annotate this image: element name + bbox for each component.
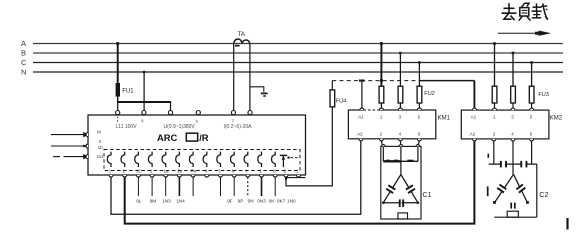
control wire KM2 coil return — [125, 141, 475, 224]
discharge resistor C1 — [398, 213, 408, 219]
svg-text:/R: /R — [199, 132, 209, 143]
svg-text:9P: 9P — [238, 199, 244, 204]
svg-text:I(0.2~5)-20A: I(0.2~5)-20A — [224, 124, 253, 130]
KM2 top terminal — [493, 108, 497, 110]
KM2 top terminal — [511, 108, 515, 110]
ground — [261, 93, 268, 96]
capacitor C1 right-phase — [405, 184, 415, 194]
wire phase C to FU2c — [418, 61, 420, 86]
wire phase C to FU3c — [530, 61, 532, 86]
fuse FU2c — [417, 86, 422, 108]
capacitor C1 left-phase — [386, 184, 396, 194]
C1 internal drop a — [382, 146, 384, 161]
svg-text:1C: 1C — [136, 169, 142, 174]
solid control supply wire — [419, 80, 474, 82]
KM1 coil terminal cap — [359, 80, 365, 109]
controller bottom terminal 8 — [205, 175, 209, 177]
svg-text:B: B — [21, 49, 26, 58]
output transistor Q7 — [189, 152, 193, 167]
C1 top terminal — [382, 145, 386, 147]
controller bottom terminal 10 — [232, 175, 236, 177]
svg-text:C2: C2 — [539, 190, 548, 199]
wire neutral tap to controller — [143, 71, 145, 111]
superscript mark s1 — [141, 118, 144, 123]
discharge resistor C2 — [507, 211, 518, 217]
wire phase A to FU2a — [380, 42, 383, 86]
svg-text:Fa: Fa — [191, 169, 197, 174]
svg-text:0N: 0N — [248, 199, 254, 204]
superscript mark 7 — [231, 119, 234, 124]
wire KM1-2 to C1 — [381, 141, 382, 147]
bus phase C — [21, 58, 563, 67]
KM1 top terminal — [417, 108, 421, 110]
KM1 bottom terminal — [359, 139, 363, 141]
svg-text:0K7: 0K7 — [277, 199, 286, 204]
wire KM1-4 to C1 — [399, 141, 402, 147]
controller bottom terminal 2 — [123, 175, 127, 177]
KM1 pin labels — [357, 114, 420, 136]
svg-text:1a: 1a — [164, 169, 169, 174]
CT secondary lead k1 — [233, 44, 235, 111]
KM2 top terminal — [530, 108, 534, 110]
svg-text:X: X — [205, 169, 208, 174]
KM1 top terminal — [379, 108, 383, 110]
dashed control supply wire — [332, 80, 419, 82]
output transistor Q1 — [107, 152, 111, 167]
svg-text:C1: C1 — [422, 190, 431, 199]
KM1 bottom terminal — [417, 139, 421, 141]
wire jumper to terminal 1 — [117, 102, 119, 111]
label C2 — [539, 190, 548, 199]
KM1 top terminal — [398, 108, 402, 110]
fuse FU3b — [511, 86, 516, 108]
controller bottom terminal 11 — [246, 175, 250, 177]
svg-text:FU2: FU2 — [424, 91, 435, 97]
wire CT to ground — [250, 87, 264, 92]
svg-text:TA: TA — [238, 31, 246, 38]
output transistor Q12 — [258, 152, 262, 167]
label KM1 — [438, 116, 451, 122]
svg-text:L11 100V: L11 100V — [116, 124, 138, 130]
C1 internal drop c — [417, 146, 419, 161]
controller bottom terminal 15 — [297, 175, 301, 177]
superscript mark s2 — [196, 118, 199, 123]
fuse FU3c — [529, 86, 534, 108]
alarm output symbol — [280, 155, 300, 167]
svg-text:A1: A1 — [471, 115, 477, 120]
label FU4 — [336, 99, 347, 105]
C1 top terminal — [399, 145, 403, 147]
svg-text:A: A — [21, 39, 26, 48]
controller left terminal 1 — [86, 133, 88, 137]
fuse FU3a — [492, 86, 497, 108]
label FU2 — [424, 91, 435, 97]
bottom pin numbers — [109, 169, 299, 174]
svg-text:0K: 0K — [269, 199, 276, 204]
label TA — [238, 31, 246, 38]
KM1 bottom terminal — [379, 139, 383, 141]
controller top terminal 6 — [248, 111, 252, 115]
controller bottom terminal 3 — [136, 175, 140, 177]
arrow to load — [498, 31, 551, 36]
capacitor C2 left-phase — [497, 184, 507, 194]
output transistor Q6 — [176, 152, 180, 167]
output transistor Q11 — [244, 152, 248, 167]
wire phase B to FU3b — [512, 52, 515, 86]
contactor KM1 box — [348, 110, 435, 139]
output transistor Q4 — [148, 152, 152, 167]
controller bottom terminal 9 — [219, 175, 223, 177]
controller top terminal 3 — [168, 111, 172, 115]
wire KM2-6 to C2 — [531, 141, 533, 164]
controller bottom terminal 5 — [164, 175, 168, 177]
label FU1 — [122, 89, 134, 95]
C2 bottom wire — [494, 216, 537, 218]
svg-text:A2: A2 — [357, 132, 363, 137]
wire KM2-2 to C2 — [493, 141, 495, 164]
left terminal tiny labels — [97, 130, 104, 159]
C1 top terminal — [416, 145, 420, 147]
capacitor C2 bar-left — [500, 161, 507, 168]
svg-text:KM2: KM2 — [550, 116, 563, 122]
svg-text:1N0: 1N0 — [287, 199, 296, 204]
output transistor Q2 — [121, 152, 125, 167]
svg-text:FU4: FU4 — [336, 99, 347, 105]
controller top terminal 1 — [116, 111, 120, 115]
wire phase A tap to FU1 — [116, 42, 119, 83]
controller bottom terminal 14 — [284, 175, 288, 177]
KM2 bottom terminal — [530, 139, 534, 141]
svg-text:ARC: ARC — [157, 132, 178, 143]
svg-text:9F: 9F — [227, 199, 233, 204]
control wire KM1 coil return — [111, 141, 361, 215]
svg-text:9L: 9L — [136, 199, 142, 204]
output transistor Q13 — [272, 152, 276, 167]
stray mark — [566, 218, 568, 230]
KM2 bottom terminal — [511, 139, 515, 141]
label 去负载 (to load) — [502, 3, 549, 20]
C1 internal drop b — [400, 146, 402, 174]
junction dot on phase A drop — [380, 79, 383, 82]
svg-text:0N3: 0N3 — [257, 199, 266, 204]
C2 bus bar — [488, 154, 537, 165]
C2 vee right side — [514, 174, 528, 203]
svg-text:2a: 2a — [177, 169, 182, 174]
controller bottom terminal 6 — [177, 175, 181, 177]
bus phase B — [21, 49, 563, 58]
svg-text:C: C — [21, 58, 27, 67]
svg-text:N: N — [21, 68, 26, 77]
output stub wires — [138, 177, 275, 196]
controller left terminal 3 — [86, 155, 88, 159]
controller bottom terminal 13 — [273, 175, 277, 177]
label KM2 — [550, 116, 563, 122]
C2 right wire — [536, 164, 538, 217]
C2 vee left side — [494, 174, 513, 203]
output transistor Q10 — [231, 152, 235, 167]
wire phase A to FU3a — [493, 42, 496, 86]
controller bottom terminal 12 — [260, 175, 264, 177]
svg-text:1N3: 1N3 — [162, 199, 171, 204]
wire KM1-6 to C1 — [418, 141, 420, 147]
wire KM2-4 to C2 — [512, 141, 514, 174]
KM1 bottom terminal — [398, 139, 402, 141]
svg-text:7: 7 — [231, 119, 234, 124]
label L1 100V — [116, 117, 138, 131]
bus phase A — [21, 39, 563, 48]
svg-text:A2: A2 — [470, 132, 476, 137]
jumper bar over controller inputs — [117, 101, 171, 103]
label section II — [511, 203, 515, 209]
svg-text:A1: A1 — [358, 114, 364, 119]
output transistor Q8 — [203, 152, 207, 167]
svg-text:9M: 9M — [150, 199, 157, 204]
C1 delta left side — [383, 175, 401, 203]
label section I — [487, 186, 489, 196]
input arrow 3 — [53, 154, 89, 159]
output transistor Q5 — [162, 152, 166, 167]
controller inner label ARC /R — [157, 132, 209, 143]
controller bottom terminal 7 — [191, 175, 195, 177]
label U 380V — [164, 124, 196, 130]
svg-text:KM1: KM1 — [438, 116, 451, 122]
KM2 pin labels — [470, 115, 533, 137]
C1 delta base — [383, 202, 418, 204]
capacitor C1 base-phase — [399, 199, 404, 207]
C1 corner joints — [382, 202, 419, 204]
label C1 — [422, 190, 431, 199]
dashed output enclosure — [104, 150, 300, 171]
C1 delta right side — [401, 175, 418, 203]
capacitor C2 bar-right — [520, 161, 527, 168]
CT secondary lead k2 — [249, 44, 251, 111]
output terminal labels — [136, 199, 296, 204]
doubled bottom edge stub — [286, 176, 306, 179]
wire supply to KM2 A1 — [473, 81, 475, 109]
svg-text:M: M — [97, 130, 101, 135]
controller top terminal 5 — [231, 111, 235, 115]
controller box ARC — [88, 115, 306, 175]
current transformer TA — [234, 39, 250, 47]
contactor KM2 box — [461, 110, 549, 139]
svg-text:FU1: FU1 — [122, 89, 134, 95]
KM2 bottom terminal — [473, 139, 477, 141]
KM1 top terminal — [360, 108, 364, 110]
controller left terminal 2 — [86, 144, 88, 148]
output transistor Q9 — [217, 152, 221, 167]
controller bottom terminal 4 — [150, 175, 154, 177]
capacitor bank C1 box — [381, 146, 421, 219]
fuse FU2b — [398, 86, 403, 108]
controller top terminal 4 — [196, 111, 200, 115]
bus neutral N — [21, 68, 563, 77]
svg-text:1b: 1b — [98, 145, 104, 150]
svg-text:111: 111 — [97, 154, 104, 159]
svg-text:U(0.9~1)380V: U(0.9~1)380V — [164, 124, 196, 130]
fuse FU4 — [330, 81, 335, 107]
capacitor C2 right-phase — [516, 184, 526, 194]
C1 bus bar — [383, 160, 418, 162]
svg-text:1N4: 1N4 — [176, 199, 185, 204]
input arrow 1 — [51, 132, 89, 137]
fuse FU2a — [379, 86, 384, 108]
fuse FU1 — [116, 83, 120, 102]
controller top terminal 2 — [142, 111, 146, 115]
svg-text:FU3: FU3 — [538, 92, 549, 98]
controller supply terminal wire — [285, 107, 332, 186]
wire jumper to terminal 3 — [170, 102, 172, 111]
input arrow 2 — [51, 145, 89, 148]
KM2 top terminal — [473, 108, 477, 110]
C2 corner joints — [493, 201, 529, 204]
label I 5-20A — [224, 124, 253, 130]
label FU3 — [538, 92, 549, 98]
output transistor Q3 — [135, 152, 139, 167]
wire phase B to FU2b — [399, 52, 401, 86]
KM2 bottom terminal — [492, 139, 496, 141]
controller bottom terminal 1 — [109, 175, 113, 177]
